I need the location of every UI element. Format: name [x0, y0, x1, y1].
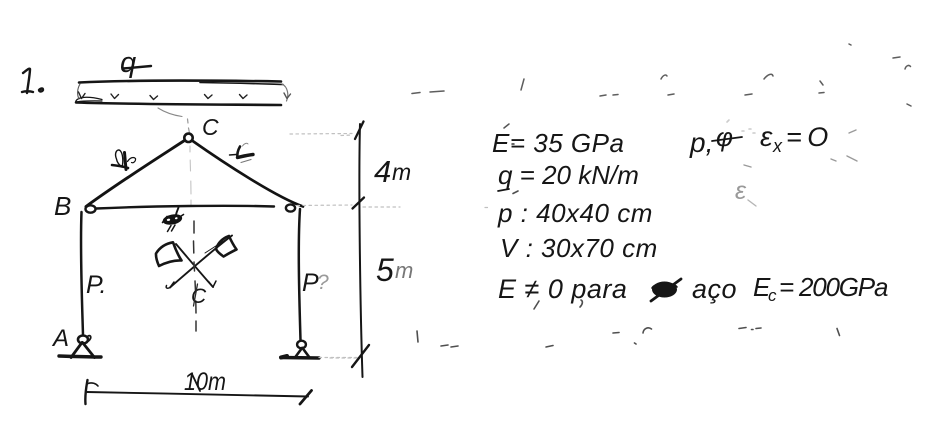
left flag: [156, 242, 182, 266]
svg-text:ε: ε: [760, 121, 773, 152]
svg-text:B: B: [54, 191, 71, 221]
svg-text:p : 40x40 cm: p : 40x40 cm: [497, 198, 653, 228]
V mark on right diagonal: [230, 143, 254, 162]
right dimension line: [359, 124, 362, 377]
right tick: [300, 391, 312, 405]
faint marks bottom area: [417, 191, 840, 347]
truss: right diagonal C-right node: [192, 141, 303, 207]
distributed load q : top line: [79, 81, 281, 83]
right support base: [281, 356, 319, 360]
svg-text:E= 35 GPa: E= 35 GPa: [492, 128, 624, 158]
right column: [299, 209, 301, 340]
faint dashes above node C: [188, 119, 190, 133]
internal hinge doodle on beam: [163, 208, 184, 232]
stray pen dot above E: [504, 124, 509, 128]
svg-text:C: C: [202, 114, 219, 140]
svg-text:m: m: [392, 159, 411, 185]
right beam node circle: [286, 204, 295, 211]
svg-text:P.: P.: [86, 271, 106, 299]
faint crease below node C: [190, 146, 191, 205]
right support: pin circle: [297, 341, 306, 349]
svg-text:p,: p,: [689, 127, 713, 158]
svg-text:10m: 10m: [184, 368, 226, 396]
svg-text:c: c: [768, 286, 777, 305]
phi blob: [652, 282, 677, 298]
svg-text:m: m: [395, 258, 413, 283]
crossed flags doodle: arm 2: [176, 244, 213, 287]
crossed flags doodle: arm 1: [170, 236, 232, 288]
scattered faint smudges top right: [412, 44, 911, 106]
arm bottom hooks: [166, 282, 174, 288]
distributed load q : bottom line: [76, 103, 281, 106]
left support: pin circle: [78, 336, 88, 344]
faint marks right of =O: [744, 130, 857, 167]
bottom tick: [352, 345, 369, 367]
problem number 1.: [22, 69, 43, 93]
svg-text:E ≠ 0 para: E ≠ 0 para: [498, 274, 627, 304]
load right end curl: [282, 84, 288, 101]
svg-text:= O: = O: [786, 122, 828, 152]
node B circle: [86, 205, 96, 212]
right support triangle: [295, 348, 302, 358]
load arrows v: [79, 92, 291, 100]
right flag: [216, 236, 237, 257]
svg-text:ε: ε: [735, 177, 747, 205]
faint arc below load: [158, 108, 182, 117]
top tick: [355, 122, 364, 140]
svg-text:q: q: [120, 47, 136, 79]
q tail cross line2: [498, 189, 509, 191]
svg-text:= 200GPa: = 200GPa: [779, 272, 888, 302]
middle tick: [353, 198, 365, 209]
svg-text:q = 20 kN/m: q = 20 kN/m: [498, 160, 639, 190]
svg-text:5: 5: [376, 252, 394, 288]
svg-text:4: 4: [374, 154, 391, 189]
left support base: [59, 356, 101, 357]
svg-text:A: A: [51, 325, 69, 352]
svg-text:?: ?: [317, 271, 329, 294]
left tick: [85, 380, 87, 404]
node C circle: [184, 134, 192, 142]
svg-text:φ: φ: [716, 122, 733, 152]
dashed vertical centerline: [194, 221, 197, 331]
svg-text:x: x: [772, 136, 783, 156]
leaf doodle on left diagonal: [112, 150, 136, 169]
truss: bottom beam: [96, 206, 274, 209]
truss: left diagonal B-C: [86, 141, 185, 207]
left column: [81, 212, 83, 335]
faint ruled dotted lines: [290, 134, 488, 359]
bottom dimension line: [87, 392, 308, 397]
load left end curl: [76, 97, 103, 102]
svg-text:aço: aço: [692, 274, 737, 304]
svg-text:V : 30x70 cm: V : 30x70 cm: [500, 233, 658, 263]
left support triangle: [71, 343, 82, 358]
